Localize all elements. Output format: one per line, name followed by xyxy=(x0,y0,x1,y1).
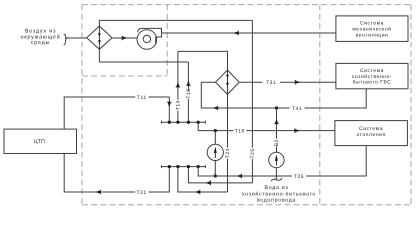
break symbol water inlet xyxy=(271,178,282,181)
svg-text:отопления: отопления xyxy=(356,132,385,138)
arrow up on B2 xyxy=(274,119,278,124)
heat-exchanger D2 (DHW) xyxy=(216,70,240,94)
svg-text:Т14: Т14 xyxy=(176,100,182,110)
arrow left on T41 xyxy=(213,106,218,110)
wire T14 riser xyxy=(177,111,179,123)
svg-text:Т31: Т31 xyxy=(266,80,276,86)
wire T24 downcomer xyxy=(227,94,229,147)
DHW system box xyxy=(336,63,408,88)
wire T16 heating supply xyxy=(198,122,233,130)
svg-text:Т41: Т41 xyxy=(292,106,302,112)
svg-text:Т11: Т11 xyxy=(137,95,147,101)
svg-text:вентиляции: вентиляции xyxy=(356,32,389,38)
wire coil D1 bottom supply xyxy=(99,49,188,62)
heating system box xyxy=(335,121,408,146)
svg-text:Т21: Т21 xyxy=(137,190,147,196)
arrow air flow right xyxy=(122,36,127,40)
svg-text:среды: среды xyxy=(31,40,51,46)
arrow on fan outlet (points left) xyxy=(233,31,238,35)
wire T11 supply xyxy=(64,97,135,129)
supply manifold rail (top) xyxy=(161,121,205,123)
arrow right on T16 xyxy=(294,128,299,132)
arrow left on T21 xyxy=(95,190,100,194)
wire T15 riser xyxy=(187,62,189,91)
CTP box xyxy=(4,129,77,153)
wire D1 return run to manifold dot3 xyxy=(188,167,252,183)
wire T26 heating return xyxy=(306,146,366,176)
wire D2 return run to manifold dot2 xyxy=(178,167,228,192)
brace air source xyxy=(64,34,67,45)
return manifold rail (bottom) xyxy=(161,166,205,168)
junction dot pump1 top xyxy=(214,129,217,132)
dashed AHU horizontal xyxy=(82,75,167,77)
dashed systems vertical xyxy=(319,5,321,205)
arrow down on T11 xyxy=(167,102,171,107)
pump P2 xyxy=(269,152,284,167)
arrow right on T31 xyxy=(295,80,300,84)
arrow left on D2 return xyxy=(195,190,200,194)
arrow up on T15 xyxy=(186,80,190,85)
junction dot pump1 bottom xyxy=(214,174,217,177)
svg-text:Т15: Т15 xyxy=(186,88,192,98)
wire T21 return xyxy=(64,154,135,193)
dashed boundary left xyxy=(81,5,83,205)
junction dot T41/B2 xyxy=(275,106,278,109)
svg-text:В2: В2 xyxy=(274,139,280,146)
wire coil to fan xyxy=(112,37,137,39)
svg-text:ЦТП: ЦТП xyxy=(34,139,46,145)
arrow left on D1 return xyxy=(206,181,211,185)
wire fan outlet to ventilation system xyxy=(162,32,336,34)
svg-text:бытового ГВС: бытового ГВС xyxy=(353,80,392,86)
svg-text:Т16: Т16 xyxy=(235,129,245,135)
arrow up on T14 xyxy=(176,82,180,87)
fan xyxy=(137,30,157,50)
svg-text:Т24: Т24 xyxy=(225,148,231,158)
dashed AHU vertical xyxy=(166,5,168,76)
pump P1 xyxy=(214,131,216,176)
wire air inlet xyxy=(66,37,87,39)
arrow left on T26 xyxy=(237,174,242,178)
svg-text:Вода из: Вода из xyxy=(265,185,289,191)
svg-text:Т25: Т25 xyxy=(250,148,256,158)
wire coil D1 top return xyxy=(99,20,252,26)
wire T25 downcomer xyxy=(251,20,253,147)
svg-text:Т26: Т26 xyxy=(294,174,304,180)
wire T14 top run to D2 xyxy=(178,51,228,70)
dashed boundary right xyxy=(410,5,412,205)
wire pump2 suction xyxy=(275,168,277,180)
wire T31 DHW supply xyxy=(239,81,262,83)
dashed boundary top xyxy=(82,4,411,6)
dashed boundary bottom xyxy=(82,204,411,206)
heat-exchanger coil D1 (air heater) xyxy=(87,26,112,49)
svg-text:водопровода: водопровода xyxy=(257,197,296,203)
wire B2 riser xyxy=(276,108,278,139)
wire T41 DHW recirculation xyxy=(305,89,367,108)
ventilation system box xyxy=(336,16,408,42)
